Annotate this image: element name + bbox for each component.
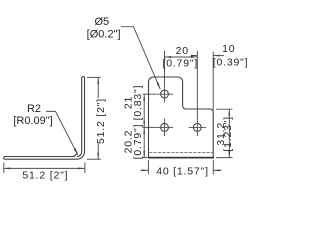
svg-text:51.2 [2"]: 51.2 [2"]	[95, 98, 107, 144]
svg-text:10: 10	[222, 43, 235, 55]
svg-text:[0.83"]: [0.83"]	[132, 85, 144, 121]
svg-text:Ø5: Ø5	[94, 16, 109, 28]
svg-text:[0.39"]: [0.39"]	[213, 57, 249, 69]
svg-text:20: 20	[176, 45, 189, 57]
svg-text:40 [1.57"]: 40 [1.57"]	[156, 165, 209, 177]
svg-text:[0.79"]: [0.79"]	[132, 124, 144, 160]
svg-text:[0.79"]: [0.79"]	[162, 57, 198, 69]
svg-text:[R0.09"]: [R0.09"]	[13, 115, 52, 127]
svg-text:R2: R2	[27, 103, 41, 115]
svg-text:[Ø0.2"]: [Ø0.2"]	[87, 29, 121, 41]
svg-text:[1.23"]: [1.23"]	[222, 116, 234, 152]
svg-text:51.2 [2"]: 51.2 [2"]	[22, 170, 68, 182]
